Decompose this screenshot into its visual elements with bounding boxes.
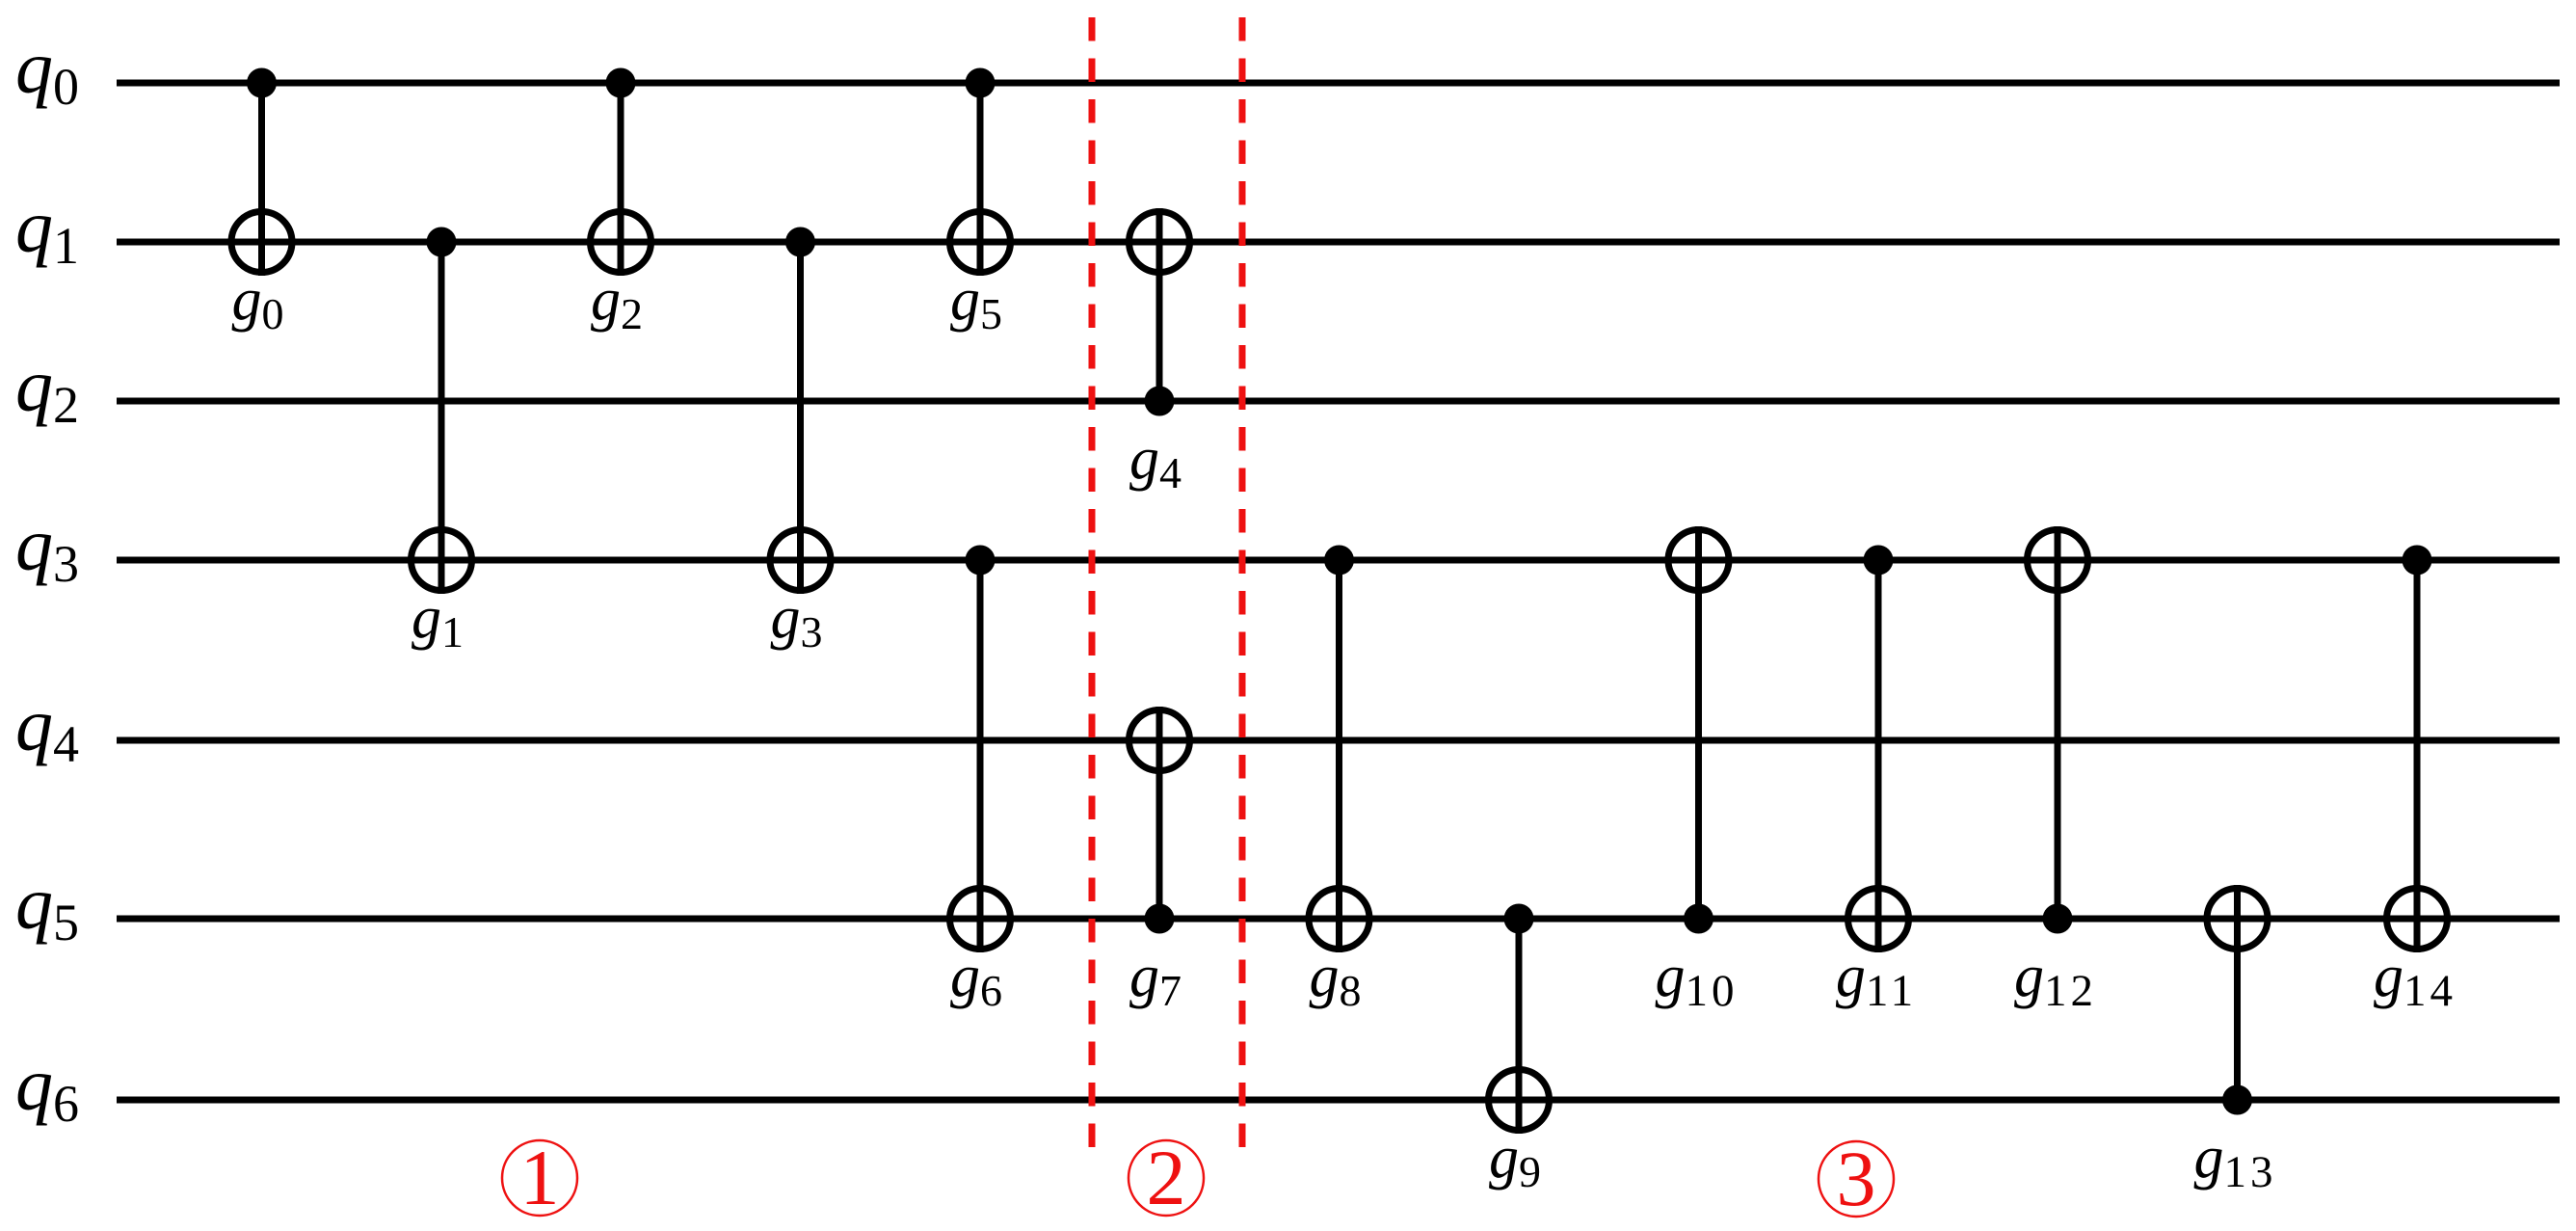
svg-text:2: 2 bbox=[1147, 1134, 1186, 1221]
svg-text:3: 3 bbox=[1837, 1135, 1876, 1222]
svg-text:1: 1 bbox=[520, 1134, 560, 1221]
